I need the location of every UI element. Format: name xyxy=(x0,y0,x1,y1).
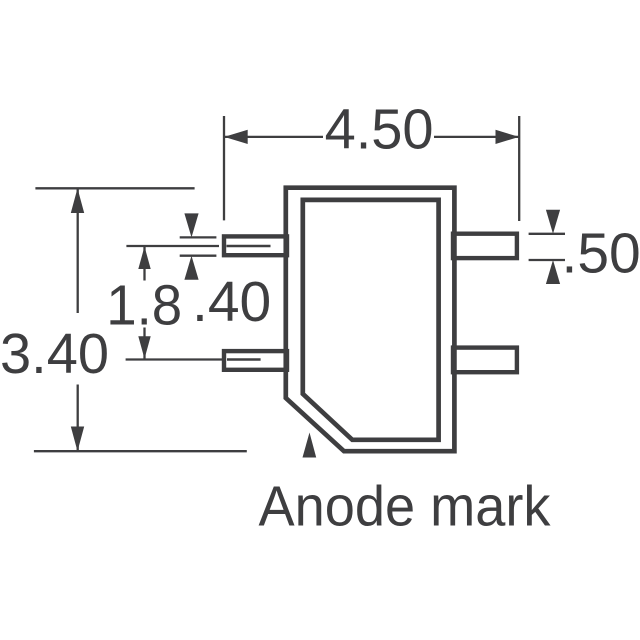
dim 1.8 top extension line xyxy=(126,245,219,247)
dim 1.8 top arrowhead xyxy=(138,247,150,270)
dim 1.8 line lower segment xyxy=(143,328,145,360)
svg-text:1.8: 1.8 xyxy=(106,274,182,338)
dim .40 upper arrowhead xyxy=(184,213,198,237)
package body inner outline xyxy=(303,200,439,440)
dim .40 upper extension line xyxy=(180,236,217,238)
package body outer outline with anode chamfer xyxy=(286,188,455,452)
dim .50 upper arrowhead xyxy=(546,210,560,234)
lead top-left seam line xyxy=(227,245,271,248)
dim .50 lower extension line xyxy=(529,259,565,261)
svg-text:.40: .40 xyxy=(192,270,271,334)
anode mark pointer arrow xyxy=(303,433,317,458)
dim 4.50 line right segment xyxy=(434,136,519,138)
dim 4.50 right extension line xyxy=(518,116,520,221)
dim .40 lower extension line xyxy=(180,255,217,257)
dim 1.8 bottom extension line xyxy=(126,358,222,360)
dim 3.40 bottom extension line xyxy=(34,450,247,452)
dim 3.40 line upper segment xyxy=(77,188,79,313)
dim 3.40 top arrowhead xyxy=(71,188,84,213)
dim 3.40 line lower segment xyxy=(77,385,79,452)
dim 4.50 left extension line xyxy=(223,116,225,220)
dim .40 lower arrowhead xyxy=(184,256,198,280)
lead bottom-left seam line xyxy=(227,358,261,361)
dim 1.8 line upper segment xyxy=(143,246,145,281)
dim 4.50 left arrowhead xyxy=(224,130,248,144)
dim .50 upper extension line xyxy=(529,233,565,235)
svg-text:Anode mark: Anode mark xyxy=(259,474,551,538)
dim .50 lower arrowhead xyxy=(546,260,560,284)
svg-text:3.40: 3.40 xyxy=(0,322,109,386)
lead top-right xyxy=(453,234,517,258)
svg-text:.50: .50 xyxy=(562,221,640,285)
dim 3.40 top extension line xyxy=(35,187,194,189)
dim 4.50 right arrowhead xyxy=(496,130,520,144)
dim 3.40 bottom arrowhead xyxy=(71,427,84,452)
lead bottom-right xyxy=(453,348,517,373)
dim 4.50 line left segment xyxy=(224,136,323,138)
svg-text:4.50: 4.50 xyxy=(325,97,434,161)
lead top-left xyxy=(224,236,287,255)
dim 1.8 bottom arrowhead xyxy=(138,336,150,359)
lead bottom-left xyxy=(224,351,287,370)
